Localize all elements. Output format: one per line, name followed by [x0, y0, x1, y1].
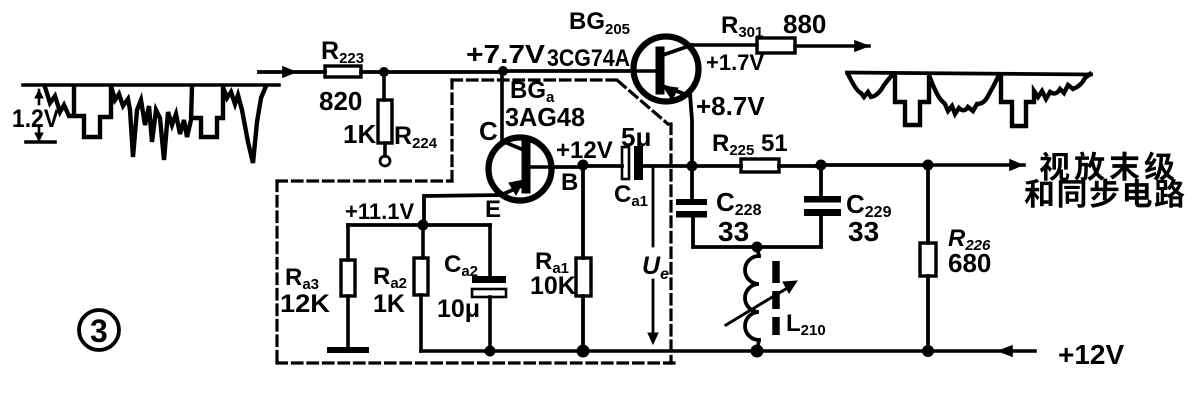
node: Ra1 bottom — [577, 345, 590, 358]
svg-text:5μ: 5μ — [621, 122, 651, 152]
wire: rail from node to BG205 base — [503, 69, 634, 73]
svg-text:33: 33 — [848, 216, 879, 247]
node: R226 bottom — [922, 345, 934, 357]
wire: BG205 collector to R301 — [692, 43, 757, 47]
transistor BG205 3CG74A — [634, 37, 699, 102]
node: C228/C229/L210 — [752, 242, 763, 253]
transistor BGa 3AG48 — [489, 138, 553, 201]
node +11.1V — [418, 220, 429, 231]
svg-text:1.2V: 1.2V — [12, 105, 59, 133]
wire: B node to Ca1 — [583, 164, 622, 168]
node: R225/C229 — [816, 160, 827, 171]
svg-text:+7.7V: +7.7V — [466, 39, 546, 69]
Ue arrow — [648, 168, 658, 344]
node: L210 bottom — [751, 345, 764, 358]
wire: BGa base to B node — [552, 165, 583, 169]
wire: to R226 node — [821, 163, 928, 167]
resistor R223 — [325, 66, 383, 77]
label output chinese line1 — [1040, 151, 1175, 180]
svg-text:B: B — [561, 169, 578, 196]
node: emitter/Ca1/R225/C228 — [687, 161, 698, 172]
node B / +12V — [578, 160, 589, 171]
svg-text:3CG74A: 3CG74A — [547, 45, 630, 72]
node: R223/R224 junction — [379, 67, 389, 77]
svg-text:+8.7V: +8.7V — [696, 91, 765, 121]
wire: R223 node to +7.7V node — [383, 70, 503, 74]
left input waveform — [23, 85, 279, 163]
svg-text:680: 680 — [948, 248, 991, 278]
right output waveform — [847, 73, 1091, 127]
node: R226 top — [923, 160, 934, 171]
resistor Ra1 — [576, 166, 591, 351]
svg-text:1K: 1K — [343, 119, 376, 149]
inductor L210 (adjustable) — [726, 247, 797, 351]
svg-text:3AG48: 3AG48 — [505, 102, 585, 132]
wire: BGa emitter to +11.1V node — [424, 195, 501, 225]
resistor R225 — [692, 159, 821, 172]
wire: +7.7V node down to BGa collector — [502, 72, 526, 151]
svg-text:+1.7V: +1.7V — [706, 50, 764, 75]
svg-text:+12V: +12V — [1058, 339, 1124, 370]
resistor Ra2 — [414, 225, 428, 351]
resistor R224 — [378, 72, 392, 166]
svg-text:1K: 1K — [373, 290, 405, 318]
1.2V dimension arrow — [26, 90, 55, 142]
svg-text:10K: 10K — [530, 272, 576, 300]
node: Ca2 bottom — [485, 346, 496, 357]
svg-text:3: 3 — [90, 313, 108, 349]
svg-text:+12V: +12V — [556, 137, 613, 164]
svg-text:C: C — [479, 116, 498, 146]
svg-text:880: 880 — [783, 9, 826, 39]
svg-text:10μ: 10μ — [437, 295, 480, 323]
dashed boundary box — [277, 80, 680, 363]
capacitor Ca1 5u — [622, 146, 692, 180]
svg-text:E: E — [485, 196, 501, 223]
wire: input rail to R223 — [259, 70, 325, 74]
resistor R226 — [920, 165, 936, 351]
node +7.7V — [498, 66, 508, 76]
capacitor C229 — [757, 165, 841, 247]
capacitor C228 — [676, 166, 757, 247]
svg-text:820: 820 — [319, 86, 362, 116]
wire: +11.1V horizontal — [348, 223, 490, 227]
capacitor Ca2 — [472, 225, 506, 351]
resistor R301 — [757, 38, 869, 53]
input arrow — [283, 67, 295, 77]
ground under Ra3 — [330, 347, 366, 353]
svg-text:12K: 12K — [280, 290, 330, 318]
label output chinese line2 — [1025, 179, 1185, 208]
wire: BG205 emitter down to output line — [690, 94, 692, 166]
rail arrow — [999, 346, 1012, 356]
circled figure number 3 — [79, 310, 119, 350]
bottom +12V rail — [421, 349, 1035, 353]
svg-text:33: 33 — [718, 216, 749, 247]
wire: output with arrow — [928, 163, 1024, 167]
resistor Ra3 — [341, 225, 355, 348]
svg-text:+11.1V: +11.1V — [345, 199, 414, 224]
